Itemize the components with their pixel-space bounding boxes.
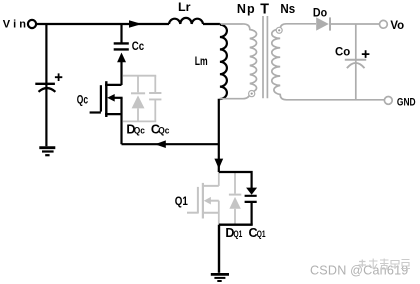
svg-text:Q1: Q1 <box>257 229 266 240</box>
gray rail top DQc CQc <box>123 75 157 77</box>
svg-text:Qc: Qc <box>158 126 170 137</box>
svg-text:Qc: Qc <box>77 95 89 107</box>
wire CQ1 down <box>251 202 253 225</box>
wire primary down <box>218 99 220 172</box>
capacitor input electrolytic <box>35 83 55 85</box>
ground input <box>39 146 55 149</box>
transformer core <box>263 16 267 98</box>
current arrow up <box>117 53 126 63</box>
wire top rail <box>36 23 169 25</box>
inductor Lm <box>220 25 227 99</box>
wire Co branch <box>355 24 357 100</box>
watermark hanzi 2 <box>380 259 389 270</box>
current arrow down <box>214 159 223 169</box>
watermark hanzi 3 <box>391 261 399 270</box>
capacitor CQ1 <box>245 196 257 202</box>
wire Q1 drain to CQ1 <box>219 172 252 188</box>
svg-text:Cc: Cc <box>132 41 145 53</box>
svg-text:Q1: Q1 <box>175 194 188 208</box>
svg-text:Vin: Vin <box>3 19 26 31</box>
svg-text:Lr: Lr <box>178 0 191 14</box>
wire Do to Vo <box>331 23 380 25</box>
winding Ns <box>272 24 385 100</box>
polarity dot Np <box>249 91 255 97</box>
svg-text:T: T <box>260 2 269 18</box>
svg-text:Qc: Qc <box>134 126 146 137</box>
wire Cc to Qc drain <box>120 61 122 86</box>
diode Do <box>316 17 329 30</box>
wire top rail right of Lr <box>203 23 220 25</box>
capacitor Cc <box>114 43 129 49</box>
ground bottom <box>211 273 229 276</box>
inductor Lr <box>169 18 203 24</box>
terminal Vo <box>380 20 388 28</box>
terminal GND <box>384 97 392 105</box>
watermark hanzi 1 <box>369 259 378 270</box>
watermark hanzi 4 <box>401 260 410 269</box>
diode DQ1 <box>229 173 241 224</box>
diode DQc <box>131 76 145 122</box>
terminal Vin <box>28 20 36 28</box>
capacitor CQc <box>149 76 161 122</box>
wire Cc branch from top rail <box>120 24 122 43</box>
svg-text:GND: GND <box>397 96 416 108</box>
gray rail bottom DQc CQc <box>123 120 157 122</box>
watermark logo icon <box>359 259 411 270</box>
svg-text:Ns: Ns <box>280 2 295 16</box>
mosfet Q1 <box>187 173 219 224</box>
mosfet Qc <box>90 81 123 144</box>
wire input branch <box>45 24 47 146</box>
current arrow left <box>155 140 166 148</box>
svg-text:Co: Co <box>335 44 350 58</box>
winding Np <box>220 24 257 99</box>
svg-text:Vo: Vo <box>390 18 404 32</box>
wire Q1 bottom <box>219 223 253 225</box>
polarity dot Ns <box>276 27 282 33</box>
wire clamp bottom <box>122 143 219 145</box>
plus sign output <box>362 50 370 58</box>
capacitor Co <box>345 59 366 61</box>
svg-text:Q1: Q1 <box>234 229 243 240</box>
current arrow down into CQ1 <box>246 188 257 195</box>
current arrow right on top rail <box>129 20 142 28</box>
svg-text:Lm: Lm <box>195 54 208 68</box>
wire to bottom ground <box>218 225 220 273</box>
svg-text:Do: Do <box>313 6 327 20</box>
plus sign input <box>55 73 62 81</box>
